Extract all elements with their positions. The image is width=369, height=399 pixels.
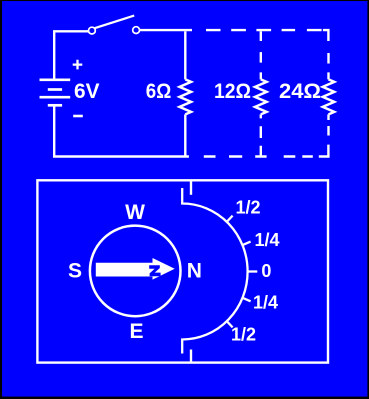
battery 6V — [40, 80, 71, 106]
dashed wire 12ohm branch top — [260, 31, 262, 79]
tick 0 — [248, 270, 258, 272]
tick half down — [227, 321, 233, 327]
svg-text:6Ω: 6Ω — [146, 80, 172, 103]
switch S1 — [89, 16, 140, 34]
dashed wire bottom right corner — [319, 145, 329, 157]
svg-text:1/4: 1/4 — [253, 293, 278, 313]
svg-text:S: S — [68, 260, 82, 283]
svg-text:E: E — [129, 320, 143, 343]
dashed wire 12ohm branch bottom — [260, 114, 262, 156]
svg-text:1/2: 1/2 — [231, 325, 256, 345]
tick quarter down — [243, 298, 251, 301]
wire bottom — [53, 155, 189, 157]
wire top-left (battery to switch) — [54, 31, 88, 80]
scale arc — [182, 188, 247, 354]
svg-text:12Ω: 12Ω — [214, 80, 251, 103]
compass circle — [90, 226, 181, 317]
battery minus sign — [73, 115, 83, 118]
wire battery negative to bottom — [53, 105, 55, 156]
svg-text:1/4: 1/4 — [254, 230, 279, 250]
tick quarter up — [243, 242, 251, 245]
needle arrow — [96, 258, 175, 280]
dashed wire 24ohm branch top — [327, 53, 329, 79]
svg-text:W: W — [125, 201, 145, 224]
terminal top — [190, 182, 192, 195]
tick half up — [227, 216, 233, 222]
wire switch to node A — [140, 29, 193, 31]
meter box — [37, 180, 328, 362]
svg-text:24Ω: 24Ω — [279, 80, 321, 103]
svg-text:N: N — [187, 260, 202, 283]
dashed wire bottom — [204, 155, 313, 157]
resistor R3 24ohm — [323, 79, 335, 114]
dashed wire top right corner — [323, 30, 329, 41]
svg-text:6V: 6V — [74, 80, 100, 103]
svg-text:1/2: 1/2 — [235, 198, 260, 218]
dashed wire top — [206, 29, 322, 31]
resistor R2 12ohm — [255, 79, 267, 114]
wire 6ohm branch bottom — [184, 114, 186, 156]
terminal bottom — [190, 350, 192, 362]
dashed wire 24ohm branch bottom — [327, 114, 329, 135]
svg-text:0: 0 — [261, 261, 271, 281]
resistor R1 6ohm — [180, 79, 192, 114]
battery plus sign — [73, 60, 83, 70]
needle Z mark — [149, 265, 160, 276]
wire 6ohm branch top — [184, 31, 186, 79]
